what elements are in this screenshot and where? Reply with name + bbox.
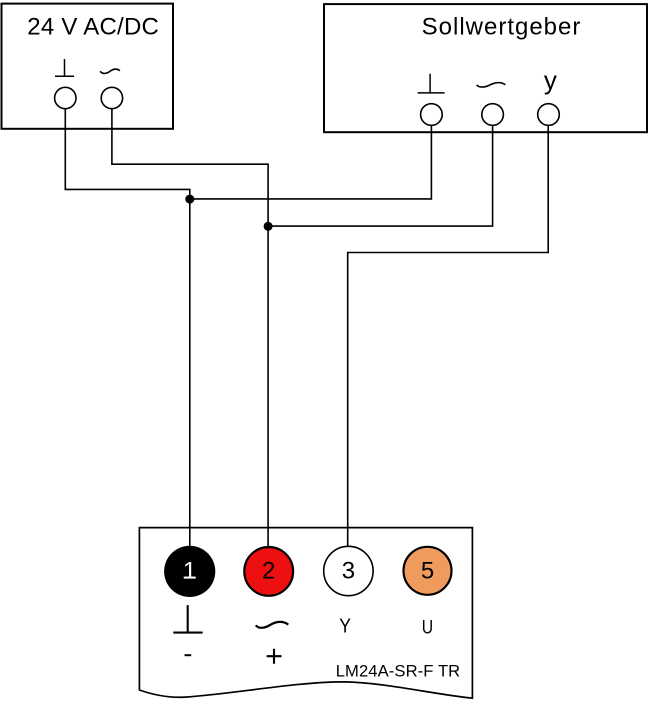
label y (Sollwertgeber output) bbox=[544, 65, 557, 95]
actuator terminal 1 (black) bbox=[164, 546, 215, 597]
actuator terminal 3 (white) bbox=[324, 546, 373, 595]
wire: power supply AC terminal to node B and down to actuator terminal 2 bbox=[112, 109, 268, 560]
terminal circle (power supply, ground) bbox=[55, 87, 76, 108]
junction node B bbox=[264, 222, 273, 231]
svg-text:24 V AC/DC: 24 V AC/DC bbox=[27, 13, 159, 40]
AC symbol (power supply) bbox=[100, 69, 120, 73]
AC symbol (actuator terminal 2) bbox=[256, 622, 288, 628]
svg-text:Sollwertgeber: Sollwertgeber bbox=[422, 14, 582, 41]
terminal circle (power supply, AC) bbox=[101, 87, 122, 108]
svg-text:Y: Y bbox=[339, 616, 351, 638]
wire: power supply ground terminal to node A and down to actuator terminal 1 bbox=[65, 109, 190, 560]
minus label (terminal 1) bbox=[185, 654, 192, 656]
pin number 5 bbox=[421, 558, 434, 585]
wire: node B to Sollwertgeber AC terminal bbox=[268, 125, 493, 226]
terminal circle (Sollwertgeber, AC) bbox=[482, 104, 504, 126]
label Sollwertgeber bbox=[422, 14, 582, 41]
ground symbol (actuator terminal 1) bbox=[173, 605, 202, 633]
svg-text:5: 5 bbox=[421, 558, 434, 585]
pin number 2 bbox=[262, 558, 275, 585]
pin number 1 bbox=[183, 558, 196, 585]
power supply box 24 V AC/DC bbox=[2, 4, 174, 129]
svg-text:LM24A-SR-F TR: LM24A-SR-F TR bbox=[336, 662, 461, 681]
value label LM24A-SR-F TR bbox=[336, 662, 461, 681]
label U (terminal 5) bbox=[422, 616, 433, 638]
Sollwertgeber box bbox=[324, 4, 647, 132]
pin number 3 bbox=[342, 558, 355, 585]
actuator body LM24A-SR-F TR bbox=[139, 528, 472, 699]
ground symbol (Sollwertgeber) bbox=[418, 74, 445, 93]
actuator terminal 2 (red) bbox=[244, 547, 293, 596]
junction node A bbox=[185, 195, 194, 204]
terminal circle (Sollwertgeber, ground) bbox=[421, 104, 443, 126]
svg-text:3: 3 bbox=[342, 558, 355, 585]
label Y (terminal 3) bbox=[339, 616, 351, 638]
wire: Sollwertgeber y terminal to actuator terminal 3 bbox=[348, 125, 549, 560]
wire: node A to Sollwertgeber ground terminal bbox=[190, 125, 432, 199]
AC symbol (Sollwertgeber) bbox=[477, 83, 506, 87]
terminal circle (Sollwertgeber, y) bbox=[538, 104, 560, 126]
svg-text:y: y bbox=[544, 65, 557, 95]
plus label (terminal 2) bbox=[267, 649, 282, 664]
svg-text:1: 1 bbox=[183, 558, 196, 585]
svg-text:2: 2 bbox=[262, 558, 275, 585]
ground symbol (power supply) bbox=[55, 59, 74, 76]
svg-text:U: U bbox=[422, 616, 433, 638]
actuator terminal 5 (orange) bbox=[404, 547, 452, 595]
label 24 V AC/DC bbox=[27, 13, 159, 40]
